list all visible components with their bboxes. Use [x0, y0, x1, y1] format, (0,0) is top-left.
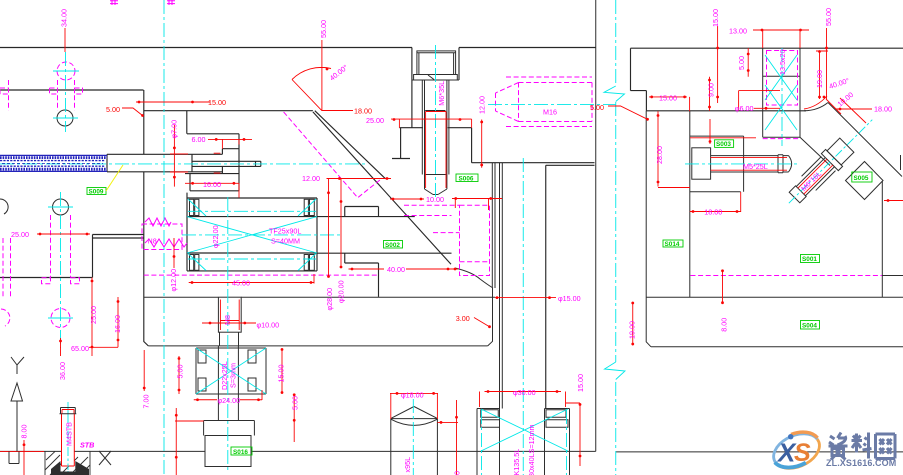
svg-text:15.00: 15.00	[576, 374, 585, 392]
svg-text:S005: S005	[854, 175, 869, 182]
svg-text:φ12.00: φ12.00	[169, 269, 178, 292]
svg-text:19.00: 19.00	[628, 321, 637, 339]
svg-text:S006: S006	[459, 176, 474, 183]
svg-text:S=40MM: S=40MM	[271, 237, 300, 246]
svg-text:φ24.00: φ24.00	[218, 396, 241, 405]
svg-text:M16: M16	[543, 108, 557, 117]
svg-text:18.00: 18.00	[354, 107, 372, 116]
svg-text:5.00: 5.00	[737, 56, 746, 70]
svg-text:M4STB: M4STB	[65, 422, 74, 446]
svg-text:15.00: 15.00	[277, 365, 286, 383]
svg-text:25.00: 25.00	[11, 230, 29, 239]
svg-text:65.00: 65.00	[71, 344, 89, 353]
svg-text:12.00: 12.00	[302, 174, 320, 183]
svg-text:M6*35L: M6*35L	[437, 81, 446, 106]
svg-text:13.5x20: 13.5x20	[778, 49, 787, 75]
svg-text:7.00: 7.00	[142, 395, 151, 409]
svg-text:TF25x90L: TF25x90L	[269, 227, 301, 236]
svg-text:40.00: 40.00	[387, 265, 405, 274]
svg-text:φ7.00: φ7.00	[170, 120, 179, 139]
svg-text:36.00: 36.00	[58, 362, 67, 380]
svg-text:S001: S001	[802, 256, 817, 263]
svg-text:S: S	[794, 439, 811, 467]
svg-text:15.00: 15.00	[659, 94, 677, 103]
svg-text:N8: N8	[148, 237, 157, 246]
svg-text:S=3mm: S=3mm	[229, 363, 238, 388]
svg-text:15.00: 15.00	[711, 9, 720, 27]
svg-text:φ10.00: φ10.00	[257, 321, 280, 330]
svg-text:φ22.00: φ22.00	[211, 225, 220, 248]
svg-text:φ30.00: φ30.00	[513, 388, 536, 397]
svg-text:15.00: 15.00	[208, 98, 226, 107]
svg-text:5.00: 5.00	[176, 365, 185, 379]
svg-text:φ28.00: φ28.00	[325, 288, 334, 311]
svg-text:25.00: 25.00	[89, 306, 98, 324]
svg-text:16 x95L: 16 x95L	[403, 457, 412, 475]
svg-text:34.00: 34.00	[60, 9, 69, 27]
svg-text:S016: S016	[233, 449, 248, 456]
svg-text:S009: S009	[89, 189, 104, 196]
svg-text:16.00: 16.00	[113, 315, 122, 333]
svg-text:55.00: 55.00	[824, 8, 833, 26]
svg-text:S004: S004	[802, 323, 817, 330]
svg-text:φ20.00: φ20.00	[337, 280, 346, 303]
svg-text:3.00: 3.00	[456, 314, 470, 323]
svg-text:ZL.XS1616.COM: ZL.XS1616.COM	[826, 458, 896, 468]
svg-text:M8: M8	[223, 315, 232, 325]
svg-text:5.00: 5.00	[291, 396, 300, 410]
svg-text:M5*25L: M5*25L	[743, 162, 768, 171]
svg-text:S002: S002	[385, 242, 400, 249]
svg-text:8.00: 8.00	[720, 318, 729, 332]
svg-text:6.00: 6.00	[192, 135, 206, 144]
svg-text:φ15.00: φ15.00	[558, 294, 581, 303]
svg-text:20.00: 20.00	[453, 471, 462, 475]
svg-text:STB: STB	[80, 441, 94, 450]
svg-text:8.00: 8.00	[20, 425, 29, 439]
svg-text:16.00: 16.00	[203, 180, 221, 189]
svg-text:K135.5L: K135.5L	[512, 449, 521, 475]
svg-text:18.00: 18.00	[704, 208, 722, 217]
svg-text:S003: S003	[716, 141, 731, 148]
svg-text:S014: S014	[665, 241, 680, 248]
svg-text:25.00: 25.00	[366, 116, 384, 125]
svg-text:45.00: 45.00	[232, 279, 250, 288]
svg-text:28.00: 28.00	[655, 146, 664, 164]
svg-text:9.00: 9.00	[707, 83, 716, 97]
svg-text:12.00: 12.00	[478, 96, 487, 114]
svg-text:19.00: 19.00	[815, 70, 824, 88]
svg-text:φ6.00: φ6.00	[735, 104, 754, 113]
svg-text:10.00: 10.00	[426, 195, 444, 204]
svg-text:30x40LS=12mm: 30x40LS=12mm	[527, 424, 536, 475]
svg-text:18.00: 18.00	[874, 105, 892, 114]
svg-text:φ18.00: φ18.00	[401, 391, 424, 400]
svg-text:55.00: 55.00	[319, 20, 328, 38]
svg-text:5.00: 5.00	[590, 103, 604, 112]
svg-text:13.00: 13.00	[729, 27, 747, 36]
svg-text:5.00: 5.00	[106, 105, 120, 114]
